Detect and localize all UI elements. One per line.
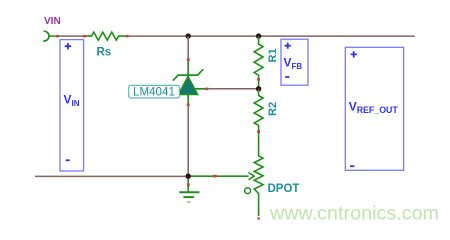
resistor R1 (254, 36, 263, 78)
svg-text:VIN: VIN (44, 16, 61, 27)
resistor R2 (254, 89, 263, 130)
pin end tick (56, 35, 59, 38)
minus VREF (350, 165, 354, 167)
wiper wire green (188, 175, 248, 177)
voltage box VREF_OUT (345, 47, 403, 170)
minus VFB (285, 76, 289, 78)
junction top R1 (256, 33, 261, 38)
wire bottom rail (35, 175, 188, 177)
svg-text:R1: R1 (267, 48, 279, 62)
pin end tick Rs right (126, 35, 129, 38)
voltage box VIN (60, 40, 84, 171)
diode D1 LM4041 (173, 61, 206, 103)
pin end tick Rs left (83, 35, 86, 38)
pin input terminal (48, 35, 57, 37)
minus VIN (66, 159, 70, 161)
wire diode branch top (187, 36, 189, 58)
wire top rail (129, 35, 415, 37)
svg-text:LM4041: LM4041 (133, 85, 175, 98)
pin end tick R1 bottom (257, 78, 260, 81)
plus VIN (65, 43, 71, 49)
svg-text:Rs: Rs (97, 47, 112, 59)
pin end tick wiper (213, 175, 217, 178)
svg-text:R2: R2 (267, 102, 279, 116)
wire R1 to junction (258, 81, 260, 89)
pin end tick ground (187, 183, 190, 186)
plus VFB (285, 43, 291, 49)
open terminal circle DPOT (245, 188, 251, 194)
resistor Rs (86, 32, 126, 40)
pin end tick diode top (187, 58, 190, 61)
pin end tick diode bottom (187, 103, 190, 106)
junction ground (186, 174, 191, 179)
junction top diode (186, 33, 191, 38)
wiper arrow (249, 173, 255, 180)
svg-text:www.cntronics.com: www.cntronics.com (269, 203, 439, 225)
junction R1 R2 (256, 86, 261, 91)
voltage box VFB (281, 39, 308, 85)
input terminal (43, 31, 49, 41)
wire fb to R divider (208, 88, 258, 90)
wire top rail left (59, 35, 84, 37)
wire diode branch bottom (187, 106, 189, 176)
pin end tick DPOT bottom (257, 217, 260, 220)
pin end tick R2 bottom (257, 130, 260, 133)
plus VREF (351, 51, 357, 57)
svg-text:DPOT: DPOT (268, 183, 300, 195)
potentiometer DPOT body (254, 133, 263, 216)
pin end tick diode fb (205, 88, 208, 91)
ground (179, 179, 199, 202)
label box LM4041 (129, 85, 180, 98)
